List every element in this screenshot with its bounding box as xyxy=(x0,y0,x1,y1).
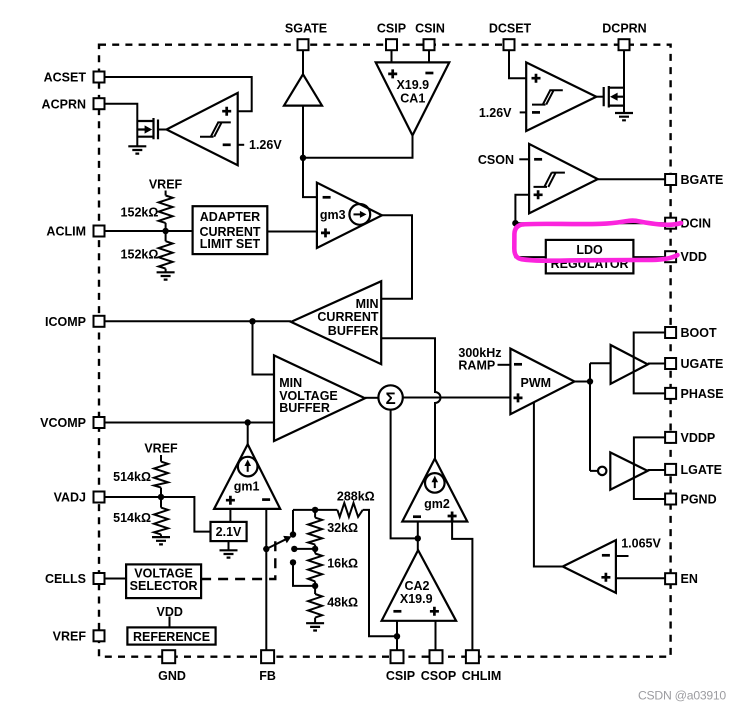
block 2.1V xyxy=(211,522,247,541)
svg-text:EN: EN xyxy=(681,572,698,586)
svg-text:DCIN: DCIN xyxy=(681,217,712,231)
wire VCOMP junction to gm1 apex xyxy=(247,423,249,445)
mark minus PWM xyxy=(514,363,522,366)
wire 288k resistor right end down to CA2 minus node xyxy=(363,510,397,636)
resistor R 514k lower xyxy=(154,508,168,535)
wire CSON stub xyxy=(519,158,529,160)
resistor R 288k horizontal xyxy=(337,503,362,517)
wire CSIP pin to CA1 xyxy=(391,50,393,62)
mark plus CSON comparator xyxy=(534,190,543,199)
wire comparator output to Q1 gate xyxy=(158,129,167,131)
op-amp CSON comparator xyxy=(529,144,598,214)
wire EN pin to comparator plus input xyxy=(616,577,665,579)
ground below 514k xyxy=(152,537,170,544)
mark minus CA2 xyxy=(393,610,401,613)
svg-text:gm3: gm3 xyxy=(320,208,346,222)
wire ACLIM to adapter current limit set box xyxy=(104,230,193,232)
wire resistor ladder top node xyxy=(293,509,337,511)
pin VDD xyxy=(665,251,676,262)
svg-text:16kΩ: 16kΩ xyxy=(327,556,358,570)
mark minus gm1 xyxy=(262,498,270,501)
IC boundary dashed border xyxy=(99,45,671,657)
wire 1.26V stub on ACSET comparator xyxy=(238,144,245,146)
resistor R 16k xyxy=(308,554,322,582)
svg-text:VREF: VREF xyxy=(53,629,87,643)
pin EN xyxy=(665,573,676,584)
wire ICOMP to min current buffer apex xyxy=(104,320,291,322)
ground below Q2 xyxy=(615,113,633,120)
wire FB pin up to gm1 minus input xyxy=(265,509,267,651)
svg-text:SGATE: SGATE xyxy=(285,22,327,36)
pin VADJ xyxy=(94,492,105,503)
op-amp DCSET comparator xyxy=(526,62,596,131)
svg-text:MIN: MIN xyxy=(356,297,379,311)
svg-text:CSON: CSON xyxy=(478,153,514,167)
block LDO REGULATOR xyxy=(546,240,634,274)
wire switch contact 1 from top node xyxy=(292,510,294,535)
wire DCIN node to DCIN pin xyxy=(515,222,665,224)
contact dots xyxy=(290,531,296,537)
dashed control line voltage selector to switch xyxy=(201,538,275,579)
pin CSOP xyxy=(430,650,443,663)
node CA2 minus junction xyxy=(394,633,400,639)
svg-text:48kΩ: 48kΩ xyxy=(327,596,358,610)
wire VDDP to PGND rail through driver xyxy=(634,437,665,499)
pin CSIN xyxy=(424,39,435,50)
pin SGATE xyxy=(298,39,309,50)
mark plus CA2 xyxy=(430,607,439,616)
svg-text:CA1: CA1 xyxy=(400,92,425,106)
mark minus DCSET comparator xyxy=(532,111,540,114)
wire CA1 output to SGATE net xyxy=(303,135,413,157)
wire VREF stub to 152k resistor xyxy=(165,191,167,273)
svg-text:ADAPTER: ADAPTER xyxy=(200,210,260,224)
pin DCIN xyxy=(665,218,676,229)
ground below 48k xyxy=(306,623,324,630)
svg-text:GND: GND xyxy=(158,669,186,683)
wire EN comparator output up to PWM xyxy=(534,403,563,567)
mark minus EN comparator xyxy=(602,554,610,557)
svg-text:ACPRN: ACPRN xyxy=(42,97,86,111)
node VCOMP junction xyxy=(245,419,251,425)
svg-text:288kΩ: 288kΩ xyxy=(337,489,375,503)
resistor R 152k upper xyxy=(159,196,173,223)
node SGATE/CA1 junction xyxy=(300,155,306,161)
svg-text:gm2: gm2 xyxy=(424,497,450,511)
op-amp gm2 xyxy=(402,459,467,522)
mark minus gm3 xyxy=(323,196,331,199)
svg-text:ICOMP: ICOMP xyxy=(45,315,86,329)
pin UGATE xyxy=(665,358,676,369)
wire SGATE pin to buffer xyxy=(302,50,304,75)
block REFERENCE xyxy=(127,627,215,644)
svg-text:2.1V: 2.1V xyxy=(216,525,242,539)
pin CELLS xyxy=(94,573,105,584)
svg-text:VREF: VREF xyxy=(149,177,183,191)
svg-text:CHLIM: CHLIM xyxy=(462,669,502,683)
block ADAPTER CURRENT LIMIT SET xyxy=(193,206,268,254)
transistor Q1 (ACPRN MOSFET) xyxy=(137,118,158,139)
svg-text:BGATE: BGATE xyxy=(681,173,724,187)
buffer lower gate driver xyxy=(610,452,647,489)
wire VREF stub to 514k resistors xyxy=(160,455,162,537)
wire LGATE driver output xyxy=(648,469,666,471)
wire CSON comparator output to BGATE pin xyxy=(598,178,665,180)
svg-text:VREF: VREF xyxy=(144,442,178,456)
mark minus CSON comparator xyxy=(534,158,542,161)
op-amp gm1 xyxy=(214,444,280,509)
node DCIN junction xyxy=(512,220,518,226)
wire 1.26V stub on DCSET comparator xyxy=(520,111,527,113)
pin ICOMP xyxy=(94,316,105,327)
pin DCSET xyxy=(504,39,515,50)
svg-text:CSOP: CSOP xyxy=(421,669,456,683)
svg-text:ACSET: ACSET xyxy=(44,71,87,85)
pin ACLIM xyxy=(94,226,105,237)
wire min current buffer output down to gm2 apex xyxy=(381,338,440,458)
wire switch contact 2 from 32k/16k tap xyxy=(294,548,315,550)
svg-text:BUFFER: BUFFER xyxy=(279,401,330,415)
wire 2.1V box to ground xyxy=(228,541,230,550)
svg-text:CURRENT: CURRENT xyxy=(317,310,378,324)
pin FB xyxy=(261,650,274,663)
mark minus ACSET comparator xyxy=(223,143,231,146)
pin CHLIM xyxy=(466,650,479,663)
svg-text:FB: FB xyxy=(259,669,276,683)
buffer upper gate driver xyxy=(611,345,648,384)
mark plus gm2 xyxy=(448,512,457,521)
ground below Q1 xyxy=(128,146,146,153)
wire CELLS to voltage selector box xyxy=(104,578,126,580)
node ICOMP junction xyxy=(249,318,255,324)
node 32k/16k tap xyxy=(312,546,318,552)
wire 16k resistor stubs xyxy=(314,549,316,586)
wire CA2 plus input to CSOP pin xyxy=(435,621,437,651)
wire driver node to upper and lower drivers xyxy=(590,363,611,471)
pin GND xyxy=(162,650,175,663)
wire DCPRN pin down through Q2 to ground xyxy=(623,50,625,113)
wire 300kHz RAMP stub to PWM minus xyxy=(498,364,511,366)
mark plus gm3 xyxy=(321,228,330,237)
pin VDDP xyxy=(665,432,676,443)
svg-text:152kΩ: 152kΩ xyxy=(121,248,159,262)
svg-text:LGATE: LGATE xyxy=(681,463,722,477)
svg-text:514kΩ: 514kΩ xyxy=(113,511,151,525)
wire PWM output to driver node xyxy=(575,381,591,383)
wire switch contact 3 from 16k/48k tap xyxy=(293,562,315,586)
pin BOOT xyxy=(665,327,676,338)
svg-text:VADJ: VADJ xyxy=(54,491,86,505)
pin DCPRN xyxy=(619,39,630,50)
pin PGND xyxy=(665,494,676,505)
svg-text:VDD: VDD xyxy=(156,605,182,619)
wire gm2 minus input xyxy=(417,522,419,551)
inverter bubble on lower driver xyxy=(598,467,606,475)
svg-text:VDD: VDD xyxy=(681,250,707,264)
switch wiper arm xyxy=(266,539,287,549)
svg-text:LIMIT SET: LIMIT SET xyxy=(200,237,261,251)
wire VDD stub to reference box xyxy=(169,617,171,628)
wire gm3 output down to min current buffer xyxy=(381,215,412,298)
wire BOOT to PHASE rail through driver xyxy=(634,333,665,394)
node VADJ divider junction xyxy=(158,494,164,500)
svg-text:BUFFER: BUFFER xyxy=(328,324,379,338)
node FB wiper pole xyxy=(263,546,269,552)
svg-text:1.065V: 1.065V xyxy=(621,537,661,551)
wire DCSET comparator output to Q2 gate xyxy=(596,96,603,98)
wire ACPRN down to MOSFET Q1 drain/ground rail xyxy=(104,104,137,147)
mark plus PWM xyxy=(514,393,523,402)
wire 48k resistor stubs xyxy=(314,586,316,623)
svg-text:DCSET: DCSET xyxy=(489,22,532,36)
wire CA2 minus input to CSIP pin xyxy=(396,621,398,651)
op-amp ACSET comparator xyxy=(167,93,238,165)
wire ACSET to comparator + input xyxy=(104,77,252,111)
wire gm1 plus input to 2.1V box xyxy=(229,509,231,522)
wire CSON comparator plus input to DCIN node xyxy=(515,195,545,257)
wire VADJ to 2.1V box xyxy=(104,497,211,532)
svg-text:X19.9: X19.9 xyxy=(396,78,429,92)
ground below 2.1V xyxy=(220,550,238,557)
buffer MIN CURRENT BUFFER xyxy=(291,281,381,364)
svg-text:SELECTOR: SELECTOR xyxy=(130,579,198,593)
svg-text:152kΩ: 152kΩ xyxy=(121,206,159,220)
svg-text:LDO: LDO xyxy=(576,243,603,257)
annotation magenta highlight over DCIN and VDD xyxy=(514,221,681,261)
wire summer bottom down to gm2 minus node xyxy=(391,410,418,539)
resistor R 152k lower xyxy=(159,241,173,268)
wire 32k resistor stubs xyxy=(314,510,316,549)
op-amp CA2 xyxy=(382,550,457,621)
svg-text:RAMP: RAMP xyxy=(458,358,495,372)
svg-text:1.26V: 1.26V xyxy=(249,138,282,152)
svg-text:UGATE: UGATE xyxy=(681,357,724,371)
wire DCSET pin to comparator plus input xyxy=(509,50,526,78)
svg-text:1.26V: 1.26V xyxy=(479,106,512,120)
wire UGATE driver output xyxy=(648,363,665,365)
block VOLTAGE SELECTOR xyxy=(126,564,201,598)
mark plus CA1 xyxy=(388,69,397,78)
node PWM output junction xyxy=(587,378,593,384)
svg-text:CELLS: CELLS xyxy=(45,572,86,586)
pin CSIP bottom xyxy=(391,650,404,663)
svg-text:514kΩ: 514kΩ xyxy=(113,470,151,484)
ground below 152k xyxy=(157,272,175,279)
svg-text:PWM: PWM xyxy=(521,376,552,390)
resistor R 32k xyxy=(308,518,322,545)
svg-text:X19.9: X19.9 xyxy=(400,592,433,606)
svg-text:DCPRN: DCPRN xyxy=(602,22,646,36)
pin ACSET xyxy=(94,72,105,83)
current source symbol in gm3 xyxy=(349,204,370,225)
transistor Q2 (DCPRN MOSFET) xyxy=(604,86,624,108)
op-amp gm3 xyxy=(317,183,382,248)
svg-text:Σ: Σ xyxy=(385,389,395,408)
mark plus DCSET comparator xyxy=(532,74,541,83)
wire box output to gm3 plus input xyxy=(267,231,317,233)
op-amp CA1 xyxy=(376,62,450,135)
wire 1.065V stub xyxy=(616,555,629,557)
wire gm2 plus input to CHLIM xyxy=(452,522,472,652)
svg-text:ACLIM: ACLIM xyxy=(46,225,86,239)
node ladder top xyxy=(312,507,318,513)
node gm2 minus / CA2 output junction xyxy=(415,535,421,541)
wire VCOMP to min voltage buffer xyxy=(104,422,274,424)
svg-text:CSIP: CSIP xyxy=(377,22,406,36)
svg-text:BOOT: BOOT xyxy=(681,326,717,340)
plus minus marks xyxy=(222,69,610,615)
pin PHASE xyxy=(665,388,676,399)
pin BGATE xyxy=(665,174,676,185)
pin ACPRN xyxy=(94,98,105,109)
wire ICOMP junction down to min voltage buffer top input xyxy=(253,321,275,374)
pin VREF xyxy=(94,630,105,641)
op-amp EN comparator xyxy=(563,540,616,593)
svg-text:CSDN @a03910: CSDN @a03910 xyxy=(638,689,726,703)
summer node xyxy=(378,385,402,409)
buffer U-SGATE xyxy=(284,74,322,105)
wire min voltage buffer output to summer xyxy=(365,397,378,399)
svg-text:PGND: PGND xyxy=(681,493,717,507)
mark plus ACSET comparator xyxy=(222,107,231,116)
pin LGATE xyxy=(665,464,676,475)
svg-text:gm1: gm1 xyxy=(234,480,260,494)
resistor R 514k upper xyxy=(154,462,168,488)
wire buffer output down to gm3 minus input xyxy=(303,106,317,198)
wire CSIN pin to CA1 xyxy=(428,50,430,62)
pin CSIP top xyxy=(386,39,397,50)
mark plus gm1 xyxy=(226,496,235,505)
svg-text:REFERENCE: REFERENCE xyxy=(133,630,210,644)
node ACLIM divider junction xyxy=(162,228,168,234)
mark minus gm2 xyxy=(413,515,421,518)
wire LDO regulator to VDD pin xyxy=(633,256,665,258)
svg-text:CSIN: CSIN xyxy=(415,22,445,36)
node 16k/48k tap xyxy=(312,583,318,589)
svg-text:PHASE: PHASE xyxy=(681,387,724,401)
mark plus EN comparator xyxy=(601,573,610,582)
svg-text:32kΩ: 32kΩ xyxy=(327,521,358,535)
mark minus CA1 xyxy=(425,72,433,75)
resistor R 48k xyxy=(308,594,322,618)
pin VCOMP xyxy=(94,417,105,428)
svg-text:VDDP: VDDP xyxy=(681,431,716,445)
svg-text:CSIP: CSIP xyxy=(386,669,415,683)
svg-text:VCOMP: VCOMP xyxy=(40,416,86,430)
op-amp PWM comparator xyxy=(510,349,574,415)
wire summer output to PWM plus input with hop over crossing xyxy=(403,397,511,399)
buffer MIN VOLTAGE BUFFER xyxy=(274,355,365,441)
